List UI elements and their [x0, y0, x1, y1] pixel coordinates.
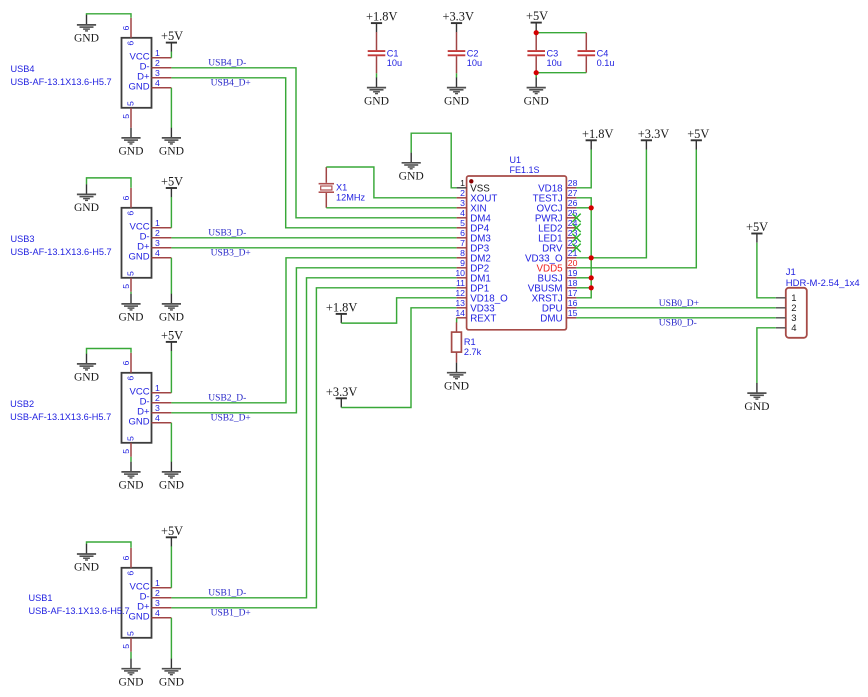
U1 pin 9 (DP2) stub: [457, 267, 467, 269]
svg-text:14: 14: [455, 308, 465, 318]
svg-text:1: 1: [460, 178, 465, 188]
ground at USB4 pin 5: [118, 128, 143, 158]
U1 pin 1 (VSS) stub: [457, 187, 467, 189]
svg-text:+5V: +5V: [161, 175, 183, 189]
U1 pin 25 (PWRJ) stub: [566, 217, 576, 219]
svg-text:GND: GND: [524, 94, 549, 107]
wire +3.3V to U1 VD33: [341, 308, 456, 408]
wire USB2 pin 4 to ground: [170, 423, 172, 462]
svg-text:USB3_D-: USB3_D-: [208, 229, 246, 239]
U1 pin 21 (VD33_O) stub: [566, 257, 576, 259]
svg-text:+5V: +5V: [526, 9, 548, 23]
wire C3 bottom to ground: [535, 73, 537, 78]
power symbol +5V at USB2 VCC: [161, 328, 183, 351]
J1 pin 2 stub: [776, 307, 786, 309]
svg-text:GND: GND: [118, 311, 143, 324]
svg-text:GND: GND: [128, 612, 149, 623]
svg-text:+5V: +5V: [746, 220, 768, 234]
svg-text:5: 5: [121, 284, 131, 289]
connector USB2 body: [122, 373, 152, 443]
ground at USB1 pin 5: [118, 659, 143, 689]
wire C4 bottom to C3 bottom: [536, 72, 586, 74]
capacitor C1: [368, 32, 402, 73]
USB2 pin 5 (shield) stub: [130, 443, 132, 457]
svg-text:6: 6: [126, 376, 136, 381]
connector USB4 body: [122, 38, 152, 108]
USB4 pin 6 (shield) stub: [130, 18, 132, 38]
wire USB4 pin 4 to ground: [170, 88, 172, 128]
wire +5V to USB1 pin 1: [170, 546, 172, 588]
J1 pin 4 stub: [776, 327, 786, 329]
svg-text:3: 3: [155, 68, 160, 78]
svg-text:+3.3V: +3.3V: [443, 10, 474, 24]
svg-text:GND: GND: [74, 561, 99, 574]
svg-text:4: 4: [155, 413, 160, 423]
svg-text:13: 13: [455, 298, 465, 308]
wire net USB4_D+: [171, 78, 456, 228]
svg-text:FE1.1S: FE1.1S: [510, 165, 540, 175]
svg-text:USB2: USB2: [10, 399, 34, 409]
connector USB1 body: [122, 568, 152, 638]
svg-text:4: 4: [791, 323, 796, 334]
USB3 pin 3 (D+) stub: [152, 247, 172, 249]
wire X1 bottom to U1 XIN: [326, 207, 456, 209]
USB2 pin 1 (VCC) stub: [152, 392, 172, 394]
svg-text:GND: GND: [74, 371, 99, 384]
svg-text:21: 21: [568, 248, 578, 258]
U1 pin 4 (DM4) stub: [457, 217, 467, 219]
wire C3 top to C4 top: [536, 32, 586, 34]
U1 pin 23 (LED1) stub: [566, 237, 576, 239]
ground at USB2 shield: [74, 354, 99, 384]
svg-text:GND: GND: [118, 675, 143, 688]
U1 pin 2 (XOUT) stub: [457, 197, 467, 199]
svg-text:GND: GND: [159, 145, 184, 158]
ground at USB1 shield: [74, 544, 99, 574]
svg-text:C3: C3: [547, 49, 559, 59]
svg-text:+1.8V: +1.8V: [326, 300, 357, 314]
op-amp/IC U1 FE1.1S body: [467, 176, 567, 330]
svg-text:20: 20: [568, 258, 578, 268]
wire net USB2_D+: [171, 268, 456, 413]
svg-text:USB2_D-: USB2_D-: [208, 394, 246, 404]
U1 pin 13 (VD33) stub: [457, 307, 467, 309]
wire net USB3_D-: [171, 237, 456, 239]
svg-text:27: 27: [568, 188, 578, 198]
svg-text:USB4_D+: USB4_D+: [211, 79, 251, 89]
svg-text:5: 5: [121, 644, 131, 649]
power symbol +5V at USB1 VCC: [161, 524, 183, 547]
capacitor C4: [578, 49, 615, 73]
wire net USB0_D+: [576, 307, 775, 309]
svg-text:GND: GND: [128, 417, 149, 428]
svg-text:12MHz: 12MHz: [336, 192, 366, 202]
ground at U1 VSS: [399, 153, 424, 183]
wire C2 to ground: [456, 73, 458, 77]
U1 pin 20 (VDD5) stub: [566, 267, 576, 269]
wire U1 VD18 to +1.8V: [576, 150, 591, 188]
wire USB4 shield to ground: [87, 14, 132, 18]
ground below C2: [444, 78, 469, 108]
svg-text:8: 8: [460, 248, 465, 258]
wire USB3 shield to ground: [87, 178, 132, 188]
svg-text:GND: GND: [74, 201, 99, 214]
svg-text:+5V: +5V: [687, 127, 709, 141]
svg-text:GND: GND: [128, 252, 149, 263]
no-connect flag pin 25: [572, 214, 580, 222]
power symbol +1.8V at U1 VD18: [582, 127, 613, 150]
svg-text:USB-AF-13.1X13.6-H5.7: USB-AF-13.1X13.6-H5.7: [10, 412, 111, 422]
junction C3/C4 ground node: [534, 70, 539, 75]
USB3 pin 2 (D-) stub: [152, 237, 172, 239]
ground below C3: [524, 78, 549, 108]
svg-text:3: 3: [155, 598, 160, 608]
wire USB2 pin 5 to ground: [130, 457, 132, 462]
wire +5V to J1 pin 1: [757, 243, 776, 298]
svg-text:10: 10: [455, 268, 465, 278]
svg-text:GND: GND: [159, 675, 184, 688]
wire C1 to ground: [376, 73, 378, 77]
capacitor C3: [527, 32, 561, 73]
power symbol +1.8V at C1: [366, 10, 397, 33]
ground below C1: [364, 78, 389, 108]
wire U1 VSS to ground: [411, 133, 456, 188]
ground below J1: [744, 383, 769, 413]
USB1 pin 5 (shield) stub: [130, 638, 132, 652]
svg-text:2: 2: [155, 58, 160, 68]
svg-text:10u: 10u: [387, 58, 402, 68]
wire USB1 shield to ground: [87, 542, 132, 548]
crystal X1: [319, 167, 366, 208]
connector USB3 body: [122, 208, 152, 278]
svg-text:4: 4: [155, 608, 160, 618]
U1 pin 3 (XIN) stub: [457, 207, 467, 209]
svg-text:GND: GND: [118, 479, 143, 492]
wire +1.8V to U1 VD18_O: [341, 298, 456, 323]
svg-text:USB3_D+: USB3_D+: [211, 249, 251, 259]
svg-text:5: 5: [121, 114, 131, 119]
J1 pin 1 stub: [776, 297, 786, 299]
svg-text:6: 6: [126, 211, 136, 216]
wire TESTJ/OVCJ/BUSJ/VBUSM/XRSTJ tie net: [576, 198, 591, 298]
USB2 pin 4 (GND) stub: [152, 422, 172, 424]
USB4 pin 4 (GND) stub: [152, 87, 172, 89]
ground at USB4 pin 4: [159, 128, 184, 158]
ground at USB2 pin 4: [159, 462, 184, 492]
svg-text:6: 6: [126, 41, 136, 46]
ground at USB3 pin 5: [118, 294, 143, 324]
svg-text:C2: C2: [467, 49, 479, 59]
wire net USB4_D-: [171, 68, 456, 218]
svg-text:USB0_D+: USB0_D+: [659, 299, 699, 309]
USB1 pin 1 (VCC) stub: [152, 587, 172, 589]
svg-text:USB1_D-: USB1_D-: [208, 589, 246, 599]
wire USB1 pin 5 to ground: [130, 652, 132, 659]
U1 pin 6 (DM3) stub: [457, 237, 467, 239]
svg-text:U1: U1: [510, 155, 522, 165]
junction C3/C4 +5V node: [534, 30, 539, 35]
svg-text:1: 1: [155, 218, 160, 228]
wire U1 VDD5 to +5V: [576, 150, 696, 268]
ground at USB3 pin 4: [159, 294, 184, 324]
svg-text:6: 6: [121, 196, 131, 201]
junction VBUSM node: [589, 285, 594, 290]
wire +5V to USB2 pin 1: [170, 351, 172, 393]
U1 pin 17 (XRSTJ) stub: [566, 297, 576, 299]
U1 pin 26 (OVCJ) stub: [566, 207, 576, 209]
svg-text:1: 1: [155, 383, 160, 393]
power symbol +5V at C3: [526, 9, 548, 32]
svg-text:GND: GND: [74, 32, 99, 45]
USB1 pin 3 (D+) stub: [152, 607, 172, 609]
svg-text:6: 6: [121, 26, 131, 31]
svg-text:+5V: +5V: [161, 29, 183, 43]
svg-text:4: 4: [155, 78, 160, 88]
svg-text:USB0_D-: USB0_D-: [659, 319, 697, 329]
wire X1 top to U1 XOUT: [326, 167, 456, 198]
svg-text:USB2_D+: USB2_D+: [211, 414, 251, 424]
power symbol +5V at U1 VDD5: [687, 127, 709, 150]
USB2 pin 2 (D-) stub: [152, 402, 172, 404]
wire USB2 shield to ground: [87, 349, 132, 355]
resistor R1: [452, 322, 482, 362]
svg-text:+5V: +5V: [161, 328, 183, 342]
USB4 pin 5 (shield) stub: [130, 108, 132, 128]
svg-text:17: 17: [568, 288, 578, 298]
svg-text:+3.3V: +3.3V: [638, 127, 669, 141]
no-connect flag pin 24: [572, 224, 580, 232]
wire BUSJ to tie net: [576, 277, 591, 279]
svg-text:USB3: USB3: [11, 234, 35, 244]
svg-text:GND: GND: [444, 94, 469, 107]
U1 pin 10 (DM1) stub: [457, 277, 467, 279]
svg-text:GND: GND: [159, 479, 184, 492]
svg-text:GND: GND: [118, 145, 143, 158]
wire U1 VD33_O to +3.3V: [576, 150, 646, 258]
ground at USB4 shield: [74, 15, 99, 45]
svg-text:0.1u: 0.1u: [597, 58, 615, 68]
svg-text:+1.8V: +1.8V: [582, 127, 613, 141]
wire USB3 pin 5 to ground: [130, 292, 132, 294]
svg-text:USB4_D-: USB4_D-: [208, 59, 246, 69]
wire net USB3_D+: [171, 247, 456, 249]
svg-text:GND: GND: [744, 400, 769, 413]
power symbol +5V at USB3 VCC: [161, 175, 183, 198]
svg-text:X1: X1: [336, 182, 347, 192]
svg-text:16: 16: [568, 298, 578, 308]
wire J1 pin 4 to ground: [757, 328, 776, 383]
svg-text:DMU: DMU: [540, 313, 562, 324]
power symbol +5V at J1 pin 1: [746, 220, 768, 243]
svg-text:GND: GND: [364, 94, 389, 107]
U1 pin 5 (DP4) stub: [457, 227, 467, 229]
U1 pin 27 (TESTJ) stub: [566, 197, 576, 199]
USB2 pin 6 (shield) stub: [130, 353, 132, 373]
power symbol +3.3V at C2: [443, 10, 474, 33]
junction OVCJ node: [589, 205, 594, 210]
wire U1 REXT to R1: [456, 318, 458, 323]
svg-text:GND: GND: [444, 379, 469, 392]
svg-text:15: 15: [568, 308, 578, 318]
U1 pin 1 marker dot: [469, 179, 473, 183]
svg-text:+1.8V: +1.8V: [366, 10, 397, 24]
svg-text:5: 5: [121, 449, 131, 454]
svg-text:+5V: +5V: [161, 524, 183, 538]
USB3 pin 6 (shield) stub: [130, 188, 132, 208]
power symbol +3.3V at U1 VD33_O: [638, 127, 669, 150]
power symbol +1.8V at U1 VD18_O: [326, 300, 357, 323]
power symbol +3.3V at U1 VD33: [326, 385, 357, 408]
wire net USB1_D+: [171, 288, 456, 608]
wire OVCJ to tie net: [576, 207, 591, 209]
USB1 pin 6 (shield) stub: [130, 548, 132, 568]
no-connect flag pin 22: [572, 244, 580, 252]
svg-text:USB-AF-13.1X13.6-H5.7: USB-AF-13.1X13.6-H5.7: [11, 247, 112, 257]
svg-text:5: 5: [126, 101, 136, 106]
svg-text:USB1: USB1: [29, 593, 53, 603]
svg-text:USB-AF-13.1X13.6-H5.7: USB-AF-13.1X13.6-H5.7: [29, 606, 130, 616]
ground at USB1 pin 4: [159, 659, 184, 689]
wire net USB2_D-: [171, 258, 456, 403]
svg-text:GND: GND: [159, 311, 184, 324]
svg-text:6: 6: [121, 361, 131, 366]
U1 pin 19 (BUSJ) stub: [566, 277, 576, 279]
U1 pin 11 (DP1) stub: [457, 287, 467, 289]
USB4 pin 3 (D+) stub: [152, 77, 172, 79]
svg-text:28: 28: [568, 178, 578, 188]
svg-text:9: 9: [460, 258, 465, 268]
svg-text:3: 3: [155, 403, 160, 413]
USB3 pin 5 (shield) stub: [130, 278, 132, 292]
svg-text:4: 4: [155, 248, 160, 258]
svg-text:HDR-M-2.54_1x4: HDR-M-2.54_1x4: [786, 278, 860, 289]
svg-text:1: 1: [155, 48, 160, 58]
svg-text:5: 5: [126, 271, 136, 276]
U1 pin 18 (VBUSM) stub: [566, 287, 576, 289]
ground at USB2 pin 5: [118, 462, 143, 492]
USB3 pin 1 (VCC) stub: [152, 227, 172, 229]
USB4 pin 2 (D-) stub: [152, 67, 172, 69]
svg-text:5: 5: [126, 436, 136, 441]
svg-text:11: 11: [456, 278, 465, 288]
svg-text:+3.3V: +3.3V: [326, 385, 357, 399]
wire +5V to USB4 pin 1: [170, 52, 172, 58]
svg-text:10u: 10u: [547, 58, 562, 68]
svg-text:19: 19: [568, 268, 578, 278]
USB2 pin 3 (D+) stub: [152, 412, 172, 414]
svg-text:J1: J1: [786, 267, 796, 278]
svg-text:USB-AF-13.1X13.6-H5.7: USB-AF-13.1X13.6-H5.7: [11, 77, 112, 87]
USB1 pin 4 (GND) stub: [152, 617, 172, 619]
USB1 pin 2 (D-) stub: [152, 597, 172, 599]
wire net USB1_D-: [171, 278, 456, 598]
U1 pin 12 (VD18_O) stub: [457, 297, 467, 299]
wire VBUSM to tie net: [576, 287, 591, 289]
U1 pin 22 (DRV) stub: [566, 247, 576, 249]
U1 pin 28 (VD18) stub: [566, 187, 576, 189]
svg-text:R1: R1: [464, 337, 476, 347]
ground at USB3 shield: [74, 184, 99, 214]
svg-text:3: 3: [460, 198, 465, 208]
junction BUSJ node: [589, 275, 594, 280]
svg-text:GND: GND: [399, 170, 424, 183]
U1 pin 16 (DPU) stub: [566, 307, 576, 309]
junction VD33_O node: [589, 255, 594, 260]
svg-text:10u: 10u: [467, 58, 482, 68]
svg-text:REXT: REXT: [470, 313, 496, 324]
svg-text:GND: GND: [128, 82, 149, 93]
svg-text:2: 2: [155, 393, 160, 403]
svg-text:6: 6: [460, 228, 465, 238]
svg-text:C4: C4: [597, 49, 609, 59]
svg-text:6: 6: [126, 571, 136, 576]
USB4 pin 1 (VCC) stub: [152, 57, 172, 59]
U1 pin 24 (LED2) stub: [566, 227, 576, 229]
svg-text:5: 5: [460, 218, 465, 228]
ground below R1: [444, 363, 469, 393]
wire USB1 pin 4 to ground: [170, 618, 172, 659]
U1 pin 14 (REXT) stub: [457, 317, 467, 319]
USB3 pin 4 (GND) stub: [152, 257, 172, 259]
svg-text:26: 26: [568, 198, 578, 208]
connector J1 body: [786, 288, 807, 338]
svg-text:6: 6: [121, 556, 131, 561]
no-connect flag pin 23: [572, 234, 580, 242]
svg-text:5: 5: [126, 631, 136, 636]
wire C4 top pin: [585, 33, 587, 51]
svg-text:USB1_D+: USB1_D+: [211, 609, 251, 619]
svg-text:18: 18: [568, 278, 578, 288]
U1 pin 15 (DMU) stub: [566, 317, 576, 319]
U1 pin 7 (DP3) stub: [457, 247, 467, 249]
wire +5V to USB3 pin 1: [170, 197, 172, 228]
svg-text:2: 2: [155, 228, 160, 238]
J1 pin 3 stub: [776, 317, 786, 319]
svg-text:2.7k: 2.7k: [464, 347, 482, 357]
svg-text:12: 12: [455, 288, 465, 298]
svg-text:USB4: USB4: [11, 64, 35, 74]
capacitor C2: [448, 32, 482, 73]
svg-text:2: 2: [460, 188, 465, 198]
svg-text:3: 3: [155, 238, 160, 248]
wire net USB0_D-: [576, 317, 775, 319]
svg-text:1: 1: [155, 578, 160, 588]
svg-text:4: 4: [460, 208, 465, 218]
power symbol +5V at USB4 VCC: [161, 29, 183, 52]
wire USB3 pin 4 to ground: [170, 258, 172, 294]
svg-text:2: 2: [155, 588, 160, 598]
svg-text:7: 7: [460, 238, 465, 248]
svg-text:C1: C1: [387, 49, 399, 59]
U1 pin 8 (DM2) stub: [457, 257, 467, 259]
